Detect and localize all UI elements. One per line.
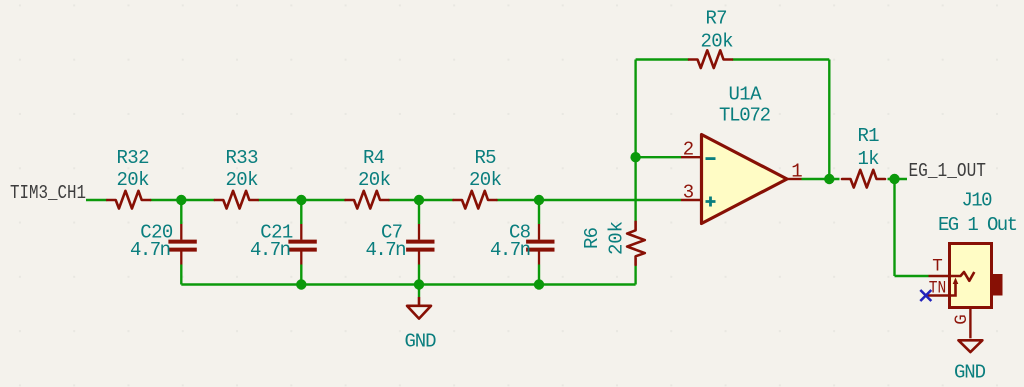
- wire R32 to R33: [150, 199, 215, 201]
- junction inverting node: [630, 152, 640, 162]
- svg-text:GND: GND: [954, 361, 986, 383]
- junction bottom at C8: [534, 279, 544, 289]
- svg-text:1: 1: [791, 161, 802, 183]
- op-amp U1A body: [702, 135, 788, 224]
- connector J10 bushing: [992, 274, 1003, 296]
- op-amp pin 1 stub: [787, 178, 802, 180]
- capacitor C20: [168, 224, 196, 265]
- svg-text:20k: 20k: [701, 31, 734, 53]
- ground symbol at J10: [958, 340, 982, 352]
- junction main at C8: [534, 195, 544, 205]
- capacitor C8: [526, 224, 554, 265]
- op-amp pin 3 stub: [681, 199, 702, 201]
- junction bottom at C21: [296, 279, 306, 289]
- resistor R1: [842, 170, 885, 188]
- jack pin G stub: [969, 307, 971, 339]
- jack pin T stub: [929, 275, 951, 277]
- svg-text:20k: 20k: [606, 221, 628, 255]
- wire R7 top left: [636, 58, 689, 60]
- wire C20 bottom stub: [180, 265, 182, 285]
- wire R4 to R5: [389, 199, 454, 201]
- svg-text:R1: R1: [858, 125, 880, 147]
- wire input to R32: [86, 199, 107, 201]
- svg-text:EG_1_OUT: EG_1_OUT: [909, 160, 987, 182]
- jack switch arrow: [950, 284, 956, 296]
- svg-text:R33: R33: [226, 147, 259, 169]
- junction main at C20: [176, 195, 186, 205]
- ground symbol mid: [407, 297, 431, 319]
- wire opamp output to R1: [802, 178, 840, 180]
- svg-text:T: T: [932, 256, 943, 276]
- svg-text:U1A: U1A: [729, 83, 763, 105]
- junction output to jack: [889, 174, 899, 184]
- svg-text:20k: 20k: [117, 169, 150, 191]
- svg-text:4.7n: 4.7n: [130, 239, 171, 261]
- wire R6 bottom: [634, 265, 636, 285]
- resistor R4: [346, 191, 389, 209]
- svg-text:R6: R6: [581, 227, 603, 249]
- wire to opamp pin2: [636, 156, 681, 158]
- wire C7 top stub: [418, 200, 420, 224]
- wire R33 to R4: [258, 199, 346, 201]
- svg-text:R7: R7: [706, 8, 728, 30]
- jack pin TN stub: [926, 294, 950, 296]
- svg-text:TL072: TL072: [719, 105, 771, 127]
- svg-text:4.7n: 4.7n: [366, 239, 407, 261]
- wire R7 left vertical: [634, 60, 636, 158]
- resistor R7: [689, 50, 732, 68]
- svg-text:20k: 20k: [358, 169, 391, 191]
- op-amp minus mark: [706, 157, 716, 160]
- op-amp pin 2 stub: [681, 156, 702, 158]
- junction bottom at C7 / GND: [414, 279, 424, 289]
- svg-text:4.7n: 4.7n: [250, 239, 291, 261]
- svg-text:EG 1 Out: EG 1 Out: [938, 214, 1018, 236]
- wire R7 top right: [732, 58, 829, 60]
- svg-text:J10: J10: [962, 189, 993, 211]
- svg-text:G: G: [952, 314, 972, 325]
- op-amp plus mark: [706, 197, 716, 207]
- svg-text:R4: R4: [363, 147, 385, 169]
- svg-text:2: 2: [683, 139, 694, 161]
- wire ground bus bottom: [181, 283, 635, 285]
- resistor R32: [107, 191, 150, 209]
- svg-text:R32: R32: [117, 147, 150, 169]
- svg-text:4.7n: 4.7n: [490, 239, 531, 261]
- junction main at C7: [414, 195, 424, 205]
- wire gnd stub: [418, 285, 420, 298]
- wire to jack tip pin: [895, 275, 929, 277]
- wire C21 top stub: [300, 200, 302, 224]
- jack tip contact: [950, 272, 974, 281]
- capacitor C21: [288, 224, 316, 265]
- capacitor C7: [406, 224, 434, 265]
- wire C7 bottom stub: [418, 265, 420, 285]
- wire R5 to opamp pin3: [497, 199, 682, 201]
- wire C8 bottom stub: [538, 265, 540, 285]
- wire R7 right vertical: [828, 60, 830, 180]
- wire C8 top stub: [538, 200, 540, 224]
- wire C20 top stub: [180, 200, 182, 224]
- resistor R33: [215, 191, 258, 209]
- svg-text:GND: GND: [405, 330, 437, 352]
- wire C21 bottom stub: [300, 265, 302, 285]
- svg-text:TIM3_CH1: TIM3_CH1: [10, 182, 86, 204]
- no-connect X on TN: [920, 290, 931, 301]
- svg-text:3: 3: [683, 182, 694, 204]
- wire down to jack: [893, 179, 895, 276]
- svg-text:1k: 1k: [858, 148, 880, 170]
- junction output feedback: [824, 174, 834, 184]
- svg-text:R5: R5: [475, 147, 497, 169]
- svg-text:20k: 20k: [469, 169, 502, 191]
- resistor R5: [454, 191, 497, 209]
- wire R6 top (feedback node vertical): [634, 157, 636, 222]
- junction main at C21: [296, 195, 306, 205]
- connector J10 body: [950, 244, 992, 308]
- resistor R6: [627, 222, 645, 265]
- svg-text:20k: 20k: [226, 169, 259, 191]
- wire R1 to EG_1_OUT: [888, 178, 908, 180]
- svg-text:TN: TN: [929, 279, 947, 299]
